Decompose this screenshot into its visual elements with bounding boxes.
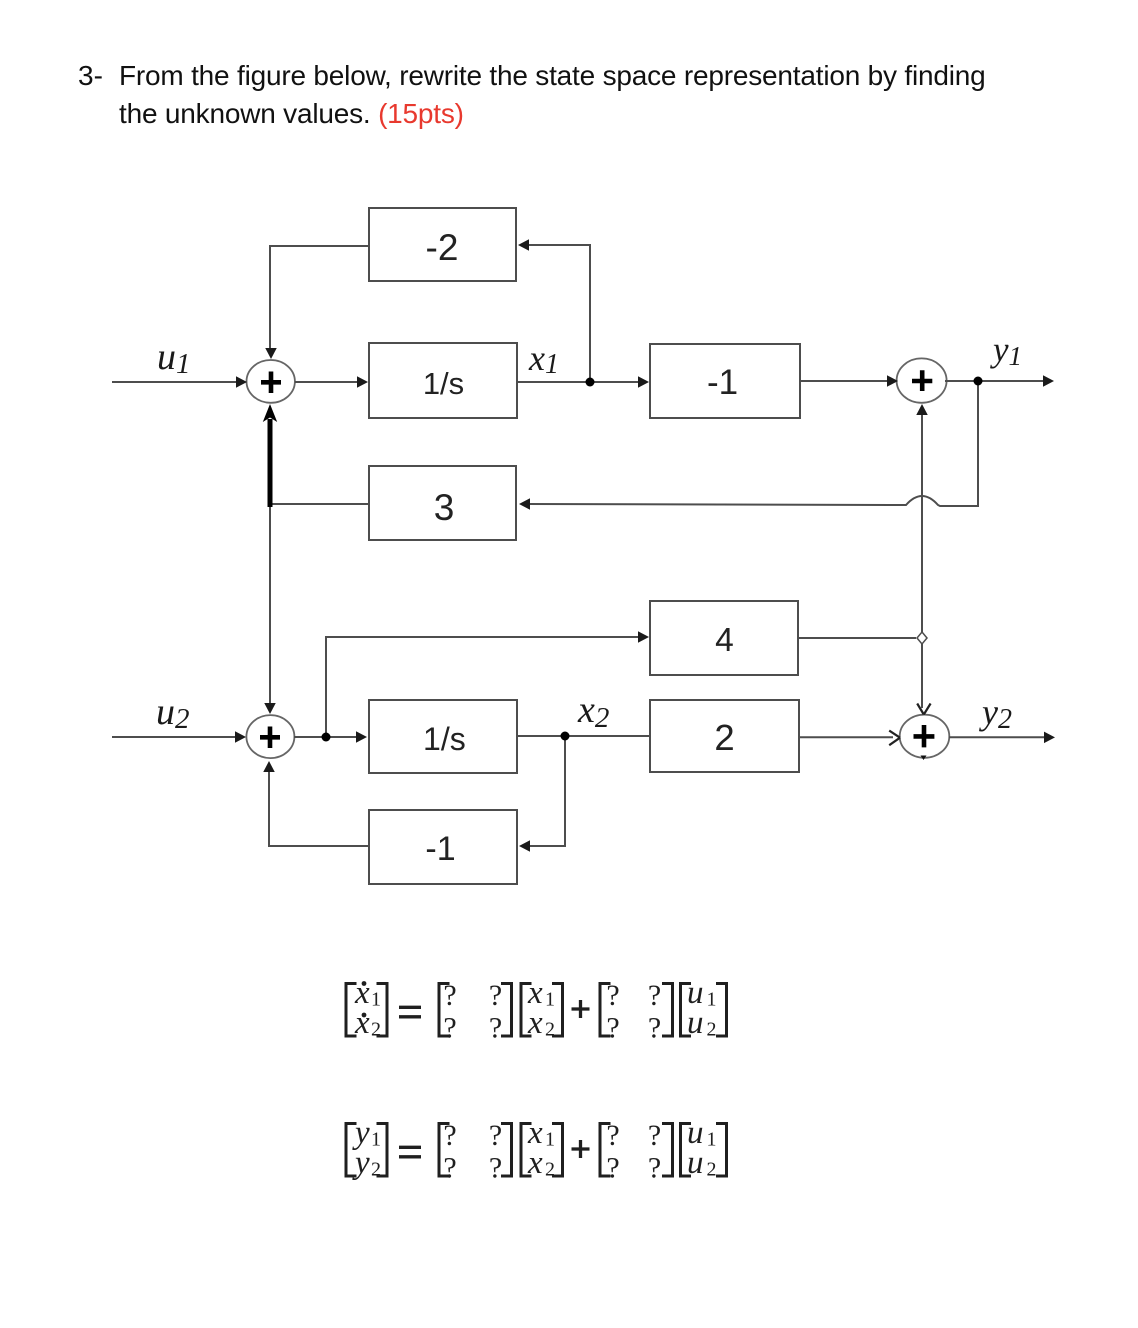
plus sign S4	[914, 725, 935, 747]
svg-text:?: ?	[648, 1152, 661, 1185]
node x1 junction dot	[586, 378, 595, 387]
value label 3	[434, 487, 455, 528]
arrowhead -1 into S2 bottom	[263, 761, 275, 772]
eq2 bracket ] of D matrix	[662, 1124, 673, 1177]
integrator block 1/s (top)	[369, 343, 517, 418]
svg-text:?: ?	[443, 1152, 456, 1185]
plus sign S3	[912, 370, 932, 391]
eq2 bracket [ of D matrix	[600, 1124, 611, 1177]
svg-text:?: ?	[443, 1119, 456, 1152]
eq1 bracket ] of u vector	[716, 984, 727, 1037]
svg-text:?: ?	[606, 1012, 619, 1045]
svg-text:?: ?	[606, 979, 619, 1012]
arrowhead into 1/s bottom	[356, 731, 367, 743]
gain block 3	[369, 466, 516, 540]
thick gain-3 arrow into S1 bottom	[263, 404, 277, 507]
svg-text:2: 2	[545, 1019, 555, 1041]
node after S2 junction dot	[322, 733, 331, 742]
wire node x2 down to -1 bottom	[528, 736, 565, 846]
wire -1 bottom output to S2 bottom	[269, 768, 369, 846]
label x1	[528, 338, 559, 380]
value label 1/s bottom	[423, 721, 466, 757]
wire S1 to 1/s	[295, 381, 358, 383]
label u2	[156, 691, 190, 735]
node x2 junction dot	[561, 732, 570, 741]
svg-text:y1: y1	[990, 330, 1022, 371]
svg-text:?: ?	[606, 1152, 619, 1185]
plus sign S1	[261, 372, 281, 394]
eq1 bracket ] of dx vector	[377, 984, 388, 1037]
svg-text:?: ?	[489, 1152, 502, 1185]
summing junction S2	[246, 715, 294, 758]
eq2 D matrix question marks	[606, 1119, 661, 1185]
arrowhead bus up into S3 bottom	[916, 404, 928, 415]
label y2	[979, 692, 1012, 735]
eq2 bracket ] of u vector	[716, 1124, 727, 1177]
svg-text:x2: x2	[577, 689, 609, 734]
label u1	[157, 336, 191, 380]
svg-text:y2: y2	[979, 692, 1012, 735]
eq2 u1 u2 vector entries	[687, 1115, 717, 1181]
arrowhead y1 output	[1043, 375, 1054, 387]
wire -2 output to S1 top	[270, 246, 369, 350]
svg-text:?: ?	[443, 1012, 456, 1045]
eq1 A matrix question marks	[443, 979, 502, 1045]
arrowhead into -1 bottom	[519, 840, 530, 852]
svg-text:x: x	[527, 1005, 543, 1041]
svg-text:u1: u1	[157, 336, 191, 380]
eq2 bracket [ of u vector	[681, 1124, 692, 1177]
wire S4 to y2 output	[949, 736, 1046, 738]
svg-text:x: x	[527, 1145, 543, 1181]
gain block -1 (top)	[650, 344, 800, 418]
wire vertical bus S3 bottom to S4 top	[921, 409, 923, 708]
eq2 y1 y2 vector entries	[352, 1115, 381, 1181]
eq1 u1 u2 vector entries	[687, 975, 717, 1041]
svg-text:2: 2	[714, 717, 734, 758]
arrowhead y2 output	[1044, 732, 1055, 744]
eq1 bracket [ of dx vector	[346, 984, 357, 1037]
eq1 bracket ] of x vector	[552, 984, 563, 1037]
summing junction S4	[900, 715, 950, 758]
eq2 plus sign	[572, 1140, 590, 1158]
wire node x1 up to -2	[527, 245, 590, 382]
title text	[78, 57, 1019, 133]
eq2 bracket [ of C matrix	[439, 1124, 450, 1177]
arrowhead into 4	[638, 631, 649, 643]
arrowhead into 1/s top	[357, 376, 368, 388]
wire S2 to 1/s bottom	[294, 736, 359, 738]
eq2 equals sign	[399, 1147, 421, 1157]
arrowhead into -2	[518, 239, 529, 251]
gain block 2	[650, 700, 799, 772]
wire node after S2 up and right to 4	[326, 637, 640, 737]
svg-text:u: u	[687, 1005, 704, 1041]
arrowhead u2 into S2	[235, 731, 246, 743]
eq1 bracket [ of A matrix	[439, 984, 450, 1037]
node y1 junction dot	[974, 377, 983, 386]
svg-text:u2: u2	[156, 691, 190, 735]
eq2 bracket ] of C matrix	[501, 1124, 512, 1177]
value label -1 top	[707, 363, 738, 402]
eq1 xdot1	[354, 975, 381, 1011]
svg-text:1: 1	[545, 989, 555, 1011]
arrowhead y1 feedback into 3	[519, 498, 530, 510]
label x2	[577, 689, 609, 734]
wire S3 to y1 output	[945, 380, 1045, 382]
wire 3 output left	[270, 503, 369, 505]
arrowhead into -1 top	[638, 376, 649, 388]
svg-text:2: 2	[707, 1159, 717, 1181]
gain block -1 (bottom)	[369, 810, 517, 884]
eq1 bracket ] of B matrix	[662, 984, 673, 1037]
svg-text:y: y	[352, 1145, 370, 1181]
arrowhead -2 wire into S1 top	[265, 348, 277, 359]
svg-text:u: u	[687, 1145, 704, 1181]
arrowhead into S2 top	[264, 703, 276, 714]
wire y1 node down and left to 3 with hop	[527, 381, 978, 506]
eq1 x1 x2 vector entries	[527, 975, 555, 1041]
svg-text:4: 4	[715, 622, 734, 659]
wire u2 input	[112, 736, 235, 738]
svg-text:2: 2	[371, 1159, 381, 1181]
svg-text:1: 1	[707, 989, 717, 1011]
svg-text:?: ?	[489, 979, 502, 1012]
wire 1/s bottom to node x2 to 2	[517, 735, 650, 737]
integrator block 1/s (bottom)	[369, 700, 517, 773]
value label 2	[714, 717, 734, 758]
svg-text:2: 2	[707, 1019, 717, 1041]
eq2 bracket [ of y vector	[346, 1124, 357, 1177]
gain block 4	[650, 601, 798, 675]
eq2 x1 x2 vector entries	[527, 1115, 555, 1181]
small mark at S4 bottom	[921, 756, 927, 761]
svg-text:?: ?	[648, 979, 661, 1012]
arrowhead chevron 2 into S4	[889, 731, 900, 746]
svg-text:1/s: 1/s	[423, 366, 464, 401]
eq1 bracket ] of A matrix	[501, 984, 512, 1037]
plus sign S2	[260, 727, 280, 749]
node diamond at 4 output on bus	[917, 632, 927, 644]
svg-text:x1: x1	[528, 338, 559, 380]
eq2 C matrix question marks	[443, 1119, 502, 1185]
wire junction down to S2 top	[269, 504, 271, 705]
eq1 xdot2	[354, 1005, 381, 1041]
svg-text:1: 1	[371, 989, 381, 1011]
eq1 equals sign	[399, 1007, 421, 1017]
svg-text:1/s: 1/s	[423, 721, 466, 757]
eq1 bracket [ of B matrix	[600, 984, 611, 1037]
value label -2	[426, 227, 459, 268]
svg-text:?: ?	[443, 979, 456, 1012]
eq1 bracket [ of x vector	[521, 984, 532, 1037]
wire 4 output to vertical bus	[798, 637, 916, 639]
svg-text:3: 3	[434, 487, 455, 528]
svg-text:-1: -1	[425, 830, 455, 868]
wire u1 input	[112, 381, 236, 383]
summing junction S1	[247, 360, 295, 403]
label y1	[990, 330, 1022, 371]
svg-text:1: 1	[371, 1129, 381, 1151]
summing junction S3	[897, 358, 947, 402]
svg-text:?: ?	[606, 1119, 619, 1152]
value label -1 bottom	[425, 830, 455, 868]
svg-text:2: 2	[545, 1159, 555, 1181]
svg-text:2: 2	[371, 1019, 381, 1041]
eq2 bracket [ of x vector	[521, 1124, 532, 1177]
svg-text:?: ?	[489, 1012, 502, 1045]
wire 2 to S4	[799, 736, 893, 738]
wire 1/s to node x1 to -1	[517, 381, 640, 383]
value label 4	[715, 622, 734, 659]
eq2 bracket ] of x vector	[552, 1124, 563, 1177]
svg-text:x: x	[354, 1005, 370, 1041]
svg-text:?: ?	[648, 1119, 661, 1152]
svg-text:?: ?	[489, 1119, 502, 1152]
eq1 bracket [ of u vector	[681, 984, 692, 1037]
svg-text:-1: -1	[707, 363, 738, 402]
svg-text:1: 1	[545, 1129, 555, 1151]
gain block -2	[369, 208, 516, 281]
eq1 B matrix question marks	[606, 979, 661, 1045]
eq2 bracket ] of y vector	[377, 1124, 388, 1177]
svg-text:-2: -2	[426, 227, 459, 268]
arrowhead chevron bus down into S4 top	[917, 704, 930, 715]
svg-text:1: 1	[707, 1129, 717, 1151]
value label 1/s top	[423, 366, 464, 401]
arrowhead u1 into S1	[236, 376, 247, 388]
arrowhead -1 output into S3	[887, 375, 898, 387]
wire -1 to S3	[800, 380, 890, 382]
svg-text:?: ?	[648, 1012, 661, 1045]
eq1 plus sign	[572, 1000, 590, 1018]
